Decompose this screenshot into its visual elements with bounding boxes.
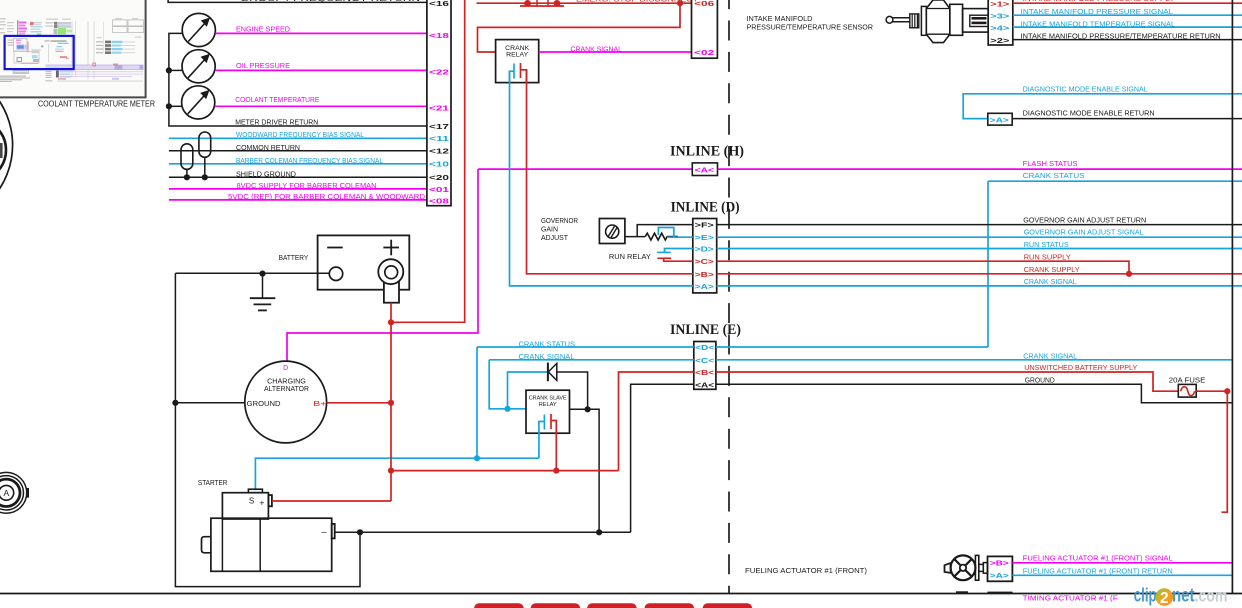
connector INLINE D (693, 219, 717, 293)
junction ground (357, 529, 363, 535)
wire crank signal to C (489, 359, 694, 361)
svg-text:RELAY: RELAY (506, 52, 529, 59)
svg-text:FLASH STATUS: FLASH STATUS (1023, 159, 1078, 168)
svg-text:GROUND: GROUND (1025, 375, 1055, 384)
wire starter positive (272, 500, 391, 502)
svg-text:RUN STATUS: RUN STATUS (1024, 240, 1069, 249)
junction red (553, 468, 559, 474)
svg-text:GOVERNOR GAIN ADJUST SIGNAL: GOVERNOR GAIN ADJUST SIGNAL (1024, 228, 1144, 237)
svg-text:METER DRIVER RETURN: METER DRIVER RETURN (235, 118, 318, 127)
wire UNSWITCHED BATTERY SUPPLY (716, 372, 1178, 391)
wire 8VDC SUPPLY (169, 188, 427, 190)
svg-text:<20: <20 (429, 173, 449, 182)
ground symbol (250, 274, 275, 311)
svg-text:INLINE (E): INLINE (E) (670, 322, 741, 338)
wire crank relay to pin A (510, 71, 693, 286)
svg-text:INTAKE MANIFOLD TEMPERATURE SI: INTAKE MANIFOLD TEMPERATURE SIGNAL (1021, 20, 1176, 29)
svg-text:>D>: >D> (695, 245, 714, 254)
connector fueling actuator (988, 556, 1013, 581)
junction shield 2 (202, 174, 208, 180)
svg-text:ADJUST: ADJUST (541, 233, 569, 242)
junction battery supply (388, 468, 394, 474)
gauge ENGINE SPEED (182, 13, 215, 46)
shield loop 1 (181, 144, 193, 170)
wire CRANK STATUS right (988, 180, 1242, 182)
svg-text:>E>: >E> (695, 233, 714, 242)
wire DIAGNOSTIC MODE ENABLE SIGNAL (963, 94, 1242, 119)
svg-text:SHIELD GROUND: SHIELD GROUND (236, 169, 296, 178)
svg-text:2: 2 (1160, 590, 1169, 607)
charging alternator (245, 361, 327, 443)
diode flyback (548, 363, 557, 382)
svg-text:+: + (259, 497, 264, 507)
wire meter driver return bus (169, 33, 427, 126)
connector intake sensor (988, 0, 1013, 45)
svg-text:INLINE (D): INLINE (D) (671, 200, 740, 216)
junction run/crank supply (1126, 271, 1132, 277)
actuator symbol (945, 555, 988, 580)
relay contact run relay (red) (658, 257, 672, 259)
svg-text:OIL PRESSURE: OIL PRESSURE (236, 61, 290, 70)
svg-text:GOVERNOR GAIN ADJUST RETURN: GOVERNOR GAIN ADJUST RETURN (1023, 216, 1146, 225)
gauge COOLANT TEMPERATURE (182, 86, 215, 119)
next row fragments below frame (956, 591, 968, 593)
svg-text:GROUP / FREQUENCY RETURN: GROUP / FREQUENCY RETURN (240, 0, 420, 3)
svg-text:>2>: >2> (990, 36, 1009, 45)
wire FUELING ACTUATOR SIGNAL (1012, 562, 1231, 564)
svg-text:COMMON RETURN: COMMON RETURN (236, 143, 300, 152)
svg-text:CRANK SUPPLY: CRANK SUPPLY (1024, 265, 1080, 274)
wire crank status drop (987, 181, 989, 347)
svg-text:<06: <06 (694, 0, 714, 8)
svg-text:RELAY: RELAY (539, 402, 557, 408)
drawing frame right border (1231, 0, 1233, 594)
wire gauge2 stub (169, 69, 182, 71)
wire unswitched battery supply (391, 470, 619, 472)
svg-text:A: A (3, 488, 9, 498)
svg-text:RUN SUPPLY: RUN SUPPLY (1024, 253, 1071, 262)
svg-text:INTAKE MANIFOLD PRESSURE/TEMPE: INTAKE MANIFOLD PRESSURE/TEMPERATURE RET… (1021, 32, 1221, 41)
connector INLINE E (694, 342, 716, 390)
wire coil input (508, 408, 527, 410)
starter motor (202, 489, 335, 571)
wire CRANK SIGNAL right (716, 359, 1232, 361)
svg-text:RUN RELAY: RUN RELAY (609, 252, 651, 261)
relay CRANK RELAY (496, 40, 539, 83)
shield stub 2 (204, 157, 206, 177)
svg-text:COOLANT TEMPERATURE METER: COOLANT TEMPERATURE METER (38, 100, 155, 109)
wire ground loop (175, 273, 360, 586)
relay CRANK SLAVE RELAY (526, 390, 570, 433)
svg-text:<21: <21 (429, 104, 449, 113)
wire 5VDC REF (169, 199, 427, 201)
junction cyan coil (504, 406, 510, 412)
svg-text:>3>: >3> (990, 11, 1009, 20)
wire gauge3 stub (169, 105, 182, 107)
wire DIAGNOSTIC MODE ENABLE RETURN (1012, 118, 1242, 120)
svg-text:>A>: >A> (695, 282, 714, 291)
svg-text:STARTER: STARTER (198, 478, 228, 487)
wire INTAKE MANIFOLD PRESSURE SIGNAL (1013, 14, 1242, 16)
wire COMMON RETURN (169, 150, 427, 152)
meter hub fragment (0, 143, 3, 158)
resistor governor gain (645, 233, 678, 240)
relay contact run relay (cyan) (657, 251, 671, 253)
wire crank relay to pin B (527, 70, 693, 274)
svg-text:<17: <17 (429, 122, 449, 131)
svg-text:FUELING ACTUATOR #1 (FRONT) SI: FUELING ACTUATOR #1 (FRONT) SIGNAL (1023, 553, 1173, 562)
wire SHIELD GROUND (169, 176, 427, 178)
svg-text:FUELING ACTUATOR #1 (FRONT) RE: FUELING ACTUATOR #1 (FRONT) RETURN (1023, 566, 1173, 575)
svg-text:<18: <18 (429, 31, 449, 40)
svg-text:>1>: >1> (990, 0, 1009, 8)
wire emergency stop top line (477, 2, 692, 4)
svg-text:>A>: >A> (990, 571, 1009, 580)
watermark clip2net.com (1134, 586, 1228, 608)
svg-text:S: S (249, 496, 254, 505)
shield loop 2 (199, 132, 211, 157)
svg-text:<11: <11 (429, 134, 449, 143)
wire to diode (508, 372, 548, 409)
svg-text:DIAGNOSTIC MODE ENABLE SIGNAL: DIAGNOSTIC MODE ENABLE SIGNAL (1023, 84, 1148, 93)
wire coil return to ground line (588, 409, 600, 532)
svg-text:<22: <22 (429, 68, 449, 77)
junction shield 1 (184, 174, 190, 180)
svg-text:>F>: >F> (695, 221, 714, 230)
wire battery supply to pin B (619, 372, 694, 471)
junction (166, 103, 172, 109)
svg-text:CRANK SIGNAL: CRANK SIGNAL (1023, 352, 1077, 361)
wire to pin E (667, 236, 693, 238)
svg-text:ENGINE SPEED: ENGINE SPEED (236, 25, 290, 34)
wire INTAKE MANIFOLD TEMPERATURE SIGNAL (1013, 26, 1242, 28)
wire pot to resistor (625, 236, 645, 238)
wire slave relay contact down (555, 433, 557, 470)
switch emergency stop disconnect (520, 0, 564, 7)
meter inner circle (cut) (0, 119, 6, 181)
wire RUN SUPPLY (717, 261, 1129, 274)
potentiometer governor gain adjust (599, 219, 625, 244)
gauge OIL PRESSURE (182, 50, 215, 83)
wire battery positive down (390, 303, 392, 323)
svg-text:20A FUSE: 20A FUSE (1169, 376, 1206, 385)
connector INLINE H (692, 163, 717, 176)
wire INTAKE MANIFOLD PRESSURE SUPPLY (1013, 2, 1242, 4)
svg-text:B+: B+ (313, 399, 326, 408)
svg-text:8VDC SUPPLY FOR BARBER COLEMAN: 8VDC SUPPLY FOR BARBER COLEMAN (237, 181, 377, 190)
wire COOLANT TEMPERATURE (215, 105, 427, 107)
svg-text:INTAKE MANIFOLD PRESSURE SUPPL: INTAKE MANIFOLD PRESSURE SUPPLY (1023, 0, 1175, 3)
wire flash status to alternator D (287, 169, 478, 361)
wire fuse out (1196, 390, 1227, 392)
svg-text:<01: <01 (429, 185, 449, 194)
svg-text:<10: <10 (429, 160, 449, 169)
wire ground run (335, 531, 631, 533)
svg-text:INTAKE MANIFOLD PRESSURE SIGNA: INTAKE MANIFOLD PRESSURE SIGNAL (1021, 7, 1174, 16)
svg-text:<16: <16 (429, 0, 449, 8)
svg-text:TIMING ACTUATOR #1 (F: TIMING ACTUATOR #1 (F (1023, 593, 1118, 602)
wire INTAKE MANIFOLD P/T RETURN (1013, 39, 1242, 41)
connector (crank signal) (692, 0, 718, 58)
wire alternator ground (175, 402, 244, 404)
wire CRANK SUPPLY (717, 273, 1242, 275)
svg-text:D: D (283, 365, 288, 372)
wire fused supply drop (1222, 391, 1228, 512)
svg-text:<08: <08 (429, 196, 449, 205)
svg-text:>B>: >B> (695, 270, 714, 279)
wire GROUND (716, 384, 1232, 403)
dashed harness boundary (728, 0, 730, 594)
svg-text:net: net (1172, 586, 1195, 607)
shield stub 1 (186, 169, 188, 177)
wire RUN STATUS (717, 248, 1242, 250)
toolbar red squares (screenshot chrome) (474, 603, 752, 608)
svg-text:WOODWARD FREQUENCY BIAS SIGNAL: WOODWARD FREQUENCY BIAS SIGNAL (236, 130, 364, 139)
wire OIL PRESSURE (215, 69, 427, 71)
junction battery positive (388, 319, 394, 325)
svg-text:CRANK STATUS: CRANK STATUS (1023, 171, 1085, 180)
junction alternator ground (172, 400, 178, 406)
wire FUELING ACTUATOR RETURN (1012, 574, 1231, 576)
wire GOVERNOR GAIN ADJUST SIGNAL (717, 236, 1242, 238)
svg-text:>A>: >A> (990, 115, 1009, 124)
junction emerg stop to pin 06 (677, 0, 683, 6)
wire starter S run (255, 458, 539, 490)
svg-text:<C<: <C< (695, 356, 714, 365)
wire top (cut) to pin 16 (168, 0, 427, 2)
overview thumbnail panel (0, 0, 145, 97)
svg-text:GROUND: GROUND (247, 399, 281, 408)
junction cyan (474, 455, 480, 461)
junction B+ (388, 400, 394, 406)
wire ENGINE SPEED (215, 32, 427, 34)
svg-text:ALTERNATOR: ALTERNATOR (264, 384, 309, 393)
wire ground from pin A (631, 384, 694, 532)
junction coil return (585, 406, 591, 412)
svg-text:BATTERY: BATTERY (279, 253, 309, 262)
svg-text:CRANK SIGNAL: CRANK SIGNAL (1024, 277, 1077, 286)
svg-text:UNSWITCHED BATTERY SUPPLY: UNSWITCHED BATTERY SUPPLY (1024, 363, 1137, 372)
svg-text:<12: <12 (429, 147, 449, 156)
svg-text:CRANK SIGNAL: CRANK SIGNAL (571, 44, 623, 53)
svg-text:<02: <02 (694, 48, 714, 57)
thumbnail selection rectangle (5, 36, 74, 69)
svg-text:–: – (322, 526, 327, 536)
battery (318, 235, 410, 302)
wire positive bus (390, 322, 392, 470)
svg-text:>C>: >C> (695, 257, 714, 266)
wire pot wiper tap (658, 228, 673, 238)
svg-text:FUELING ACTUATOR #1 (FRONT): FUELING ACTUATOR #1 (FRONT) (745, 566, 867, 575)
wire GOVERNOR GAIN ADJUST RETURN (717, 224, 1242, 226)
wire crank status to D (477, 346, 694, 348)
wire BARBER COLEMAN FREQUENCY BIAS SIGNAL (169, 163, 427, 165)
svg-text:5VDC (REF) FOR BARBER COLEMAN: 5VDC (REF) FOR BARBER COLEMAN & WOODWARD (228, 192, 426, 201)
svg-text:<B<: <B< (695, 368, 714, 377)
svg-text:>4>: >4> (990, 23, 1009, 32)
wire crank signal drop (489, 360, 507, 409)
drawing frame bottom border (0, 593, 1242, 595)
svg-text:>B>: >B> (990, 559, 1009, 568)
junction fused supply (1224, 388, 1230, 394)
svg-text:.com: .com (1195, 586, 1228, 606)
connector J1 (meter harness) (427, 0, 451, 206)
wire alternator B+ (327, 402, 391, 404)
svg-text:INLINE (H): INLINE (H) (670, 144, 744, 160)
junction ground 2 (596, 529, 602, 535)
svg-text:<A<: <A< (695, 380, 714, 389)
connector diagnostic (988, 113, 1012, 125)
wire CRANK SIGNAL (D-A) (717, 285, 1242, 287)
wire diode to coil return (557, 372, 588, 409)
wire positive to starter (390, 471, 392, 501)
svg-text:clip: clip (1134, 586, 1157, 607)
wire crank status drop to starter line (476, 347, 478, 458)
svg-text:DIAGNOSTIC MODE ENABLE RETURN: DIAGNOSTIC MODE ENABLE RETURN (1023, 108, 1155, 117)
wire battery supply drop (391, 0, 465, 322)
wire CRANK SIGNAL (539, 51, 692, 53)
wire relay coil return (570, 408, 588, 410)
junction ground symbol (259, 271, 265, 277)
wire up into slave relay (538, 433, 540, 458)
svg-text:COOLANT TEMPERATURE: COOLANT TEMPERATURE (235, 95, 319, 104)
svg-text:<A<: <A< (695, 165, 715, 174)
fuse 20A (1178, 384, 1196, 397)
svg-text:CRANK SLAVE: CRANK SLAVE (529, 395, 567, 401)
thumbnail border (0, 0, 146, 97)
meter bezel arc (cut at left edge) (0, 65, 13, 224)
wire crank relay supply (478, 3, 681, 52)
wire WOODWARD FREQUENCY BIAS SIGNAL (169, 137, 427, 139)
wire FLASH STATUS right (718, 168, 1242, 170)
wire FLASH STATUS left (478, 168, 692, 170)
sensor intake manifold P/T (886, 0, 988, 43)
wire crank status right (716, 346, 988, 348)
wire battery negative (175, 272, 329, 274)
meter symbol A (cut at left edge) (0, 472, 29, 513)
svg-text:<D<: <D< (695, 343, 714, 352)
junction (166, 67, 172, 73)
wire to pin F (637, 225, 693, 237)
svg-text:BARBER COLEMAN FREQUENCY BIAS: BARBER COLEMAN FREQUENCY BIAS SIGNAL (236, 156, 383, 165)
svg-text:PRESSURE/TEMPERATURE SENSOR: PRESSURE/TEMPERATURE SENSOR (747, 22, 874, 31)
